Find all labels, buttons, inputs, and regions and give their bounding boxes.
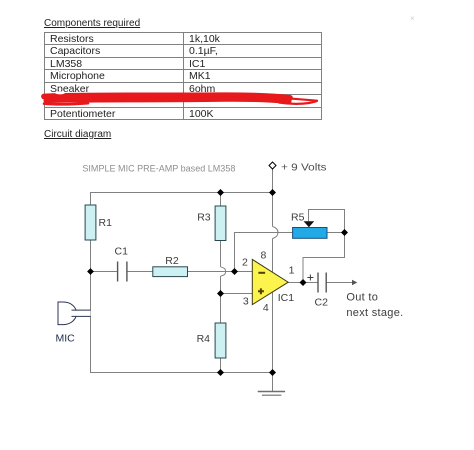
svg-text:R4: R4 [197, 333, 211, 345]
svg-text:R5: R5 [291, 212, 305, 224]
svg-text:R3: R3 [197, 212, 211, 224]
svg-text:2: 2 [242, 257, 248, 269]
svg-text:1: 1 [289, 265, 295, 277]
svg-text:R2: R2 [165, 255, 179, 267]
svg-text:4: 4 [263, 302, 269, 314]
svg-text:C1: C1 [115, 246, 129, 258]
svg-text:SIMPLE MIC PRE-AMP based LM358: SIMPLE MIC PRE-AMP based LM358 [82, 164, 235, 174]
svg-text:+ 9 Volts: + 9 Volts [281, 162, 327, 174]
svg-text:8: 8 [261, 250, 267, 262]
svg-text:R1: R1 [99, 217, 113, 229]
svg-text:Out to: Out to [346, 292, 378, 304]
svg-text:MIC: MIC [56, 333, 76, 345]
svg-text:IC1: IC1 [278, 292, 295, 304]
svg-text:C2: C2 [315, 297, 329, 309]
svg-text:next stage.: next stage. [346, 307, 403, 319]
svg-text:3: 3 [243, 296, 249, 308]
